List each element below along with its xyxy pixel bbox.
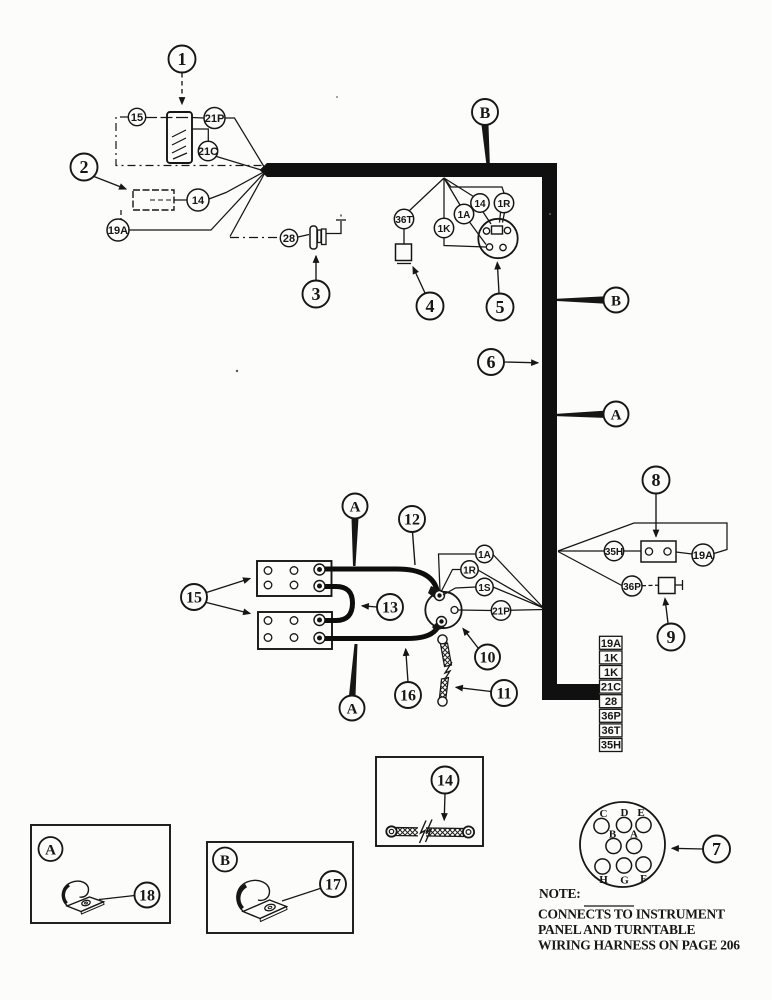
- svg-text:5: 5: [496, 297, 505, 317]
- svg-text:3: 3: [312, 284, 321, 304]
- svg-text:14: 14: [437, 773, 453, 790]
- svg-text:10: 10: [480, 650, 496, 667]
- svg-text:1R: 1R: [498, 199, 512, 210]
- svg-text:12: 12: [404, 512, 420, 529]
- svg-text:36T: 36T: [395, 215, 412, 226]
- svg-text:CONNECTS TO INSTRUMENT: CONNECTS TO INSTRUMENT: [538, 907, 725, 922]
- svg-text:14: 14: [474, 199, 486, 210]
- svg-text:18: 18: [139, 888, 155, 905]
- svg-text:A: A: [350, 500, 361, 516]
- svg-text:G: G: [620, 875, 629, 887]
- svg-text:28: 28: [283, 233, 295, 245]
- svg-text:7: 7: [712, 839, 721, 859]
- svg-text:15: 15: [186, 590, 202, 607]
- svg-text:1K: 1K: [438, 224, 452, 235]
- svg-text:B: B: [611, 294, 621, 310]
- svg-text:H: H: [599, 874, 608, 886]
- svg-text:1A: 1A: [458, 210, 471, 221]
- svg-text:1K: 1K: [604, 667, 618, 679]
- svg-text:21C: 21C: [198, 146, 218, 158]
- svg-text:F: F: [640, 873, 647, 885]
- svg-text:36T: 36T: [602, 725, 621, 737]
- svg-text:1K: 1K: [604, 653, 618, 665]
- svg-text:E: E: [637, 807, 644, 819]
- svg-text:C: C: [600, 808, 608, 820]
- svg-text:35H: 35H: [601, 740, 621, 752]
- svg-text:A: A: [630, 829, 638, 841]
- svg-text:B: B: [609, 829, 617, 841]
- svg-text:28: 28: [605, 696, 617, 708]
- svg-text:13: 13: [382, 600, 398, 617]
- svg-text:19A: 19A: [693, 550, 713, 562]
- svg-text:2: 2: [80, 157, 89, 177]
- svg-text:16: 16: [400, 688, 416, 705]
- svg-text:4: 4: [426, 296, 435, 316]
- svg-text:A: A: [611, 408, 622, 424]
- svg-text:15: 15: [131, 112, 143, 124]
- svg-text:PANEL AND TURNTABLE: PANEL AND TURNTABLE: [538, 922, 696, 937]
- svg-text:11: 11: [496, 686, 511, 703]
- svg-text:36P: 36P: [623, 582, 641, 593]
- svg-text:NOTE:: NOTE:: [539, 886, 581, 901]
- svg-text:B: B: [220, 853, 230, 869]
- svg-text:A: A: [347, 702, 358, 718]
- svg-text:21P: 21P: [205, 113, 225, 125]
- svg-text:D: D: [621, 807, 629, 819]
- svg-text:17: 17: [325, 877, 341, 894]
- svg-text:WIRING HARNESS ON PAGE 206: WIRING HARNESS ON PAGE 206: [538, 938, 740, 953]
- svg-text:A: A: [45, 843, 56, 859]
- svg-text:1R: 1R: [463, 566, 477, 577]
- svg-text:36P: 36P: [601, 711, 621, 723]
- svg-text:21C: 21C: [601, 682, 621, 694]
- svg-text:35H: 35H: [605, 547, 623, 558]
- svg-text:14: 14: [192, 195, 205, 207]
- svg-text:1S: 1S: [478, 583, 491, 594]
- svg-text:19A: 19A: [601, 638, 621, 650]
- svg-text:6: 6: [487, 352, 496, 372]
- svg-text:B: B: [480, 105, 491, 122]
- svg-text:1A: 1A: [478, 550, 491, 561]
- svg-text:8: 8: [652, 470, 661, 490]
- svg-text:21P: 21P: [492, 607, 510, 618]
- svg-text:9: 9: [667, 627, 676, 647]
- svg-text:1: 1: [178, 49, 187, 69]
- svg-text:19A: 19A: [108, 225, 128, 237]
